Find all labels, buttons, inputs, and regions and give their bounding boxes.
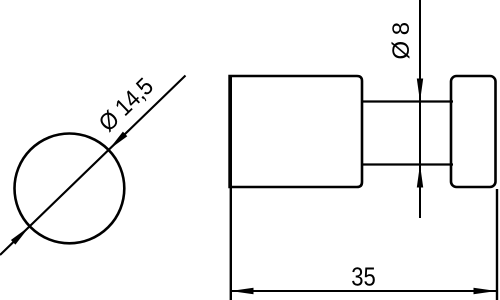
arrowhead at upper-right circle edge <box>109 132 128 150</box>
diagonal diameter dimension line <box>0 76 186 256</box>
right extension line (cap right edge extended) <box>496 189 498 300</box>
35 horizontal dimension line <box>231 290 497 292</box>
side view body (large cylinder) <box>230 76 362 187</box>
svg-text:Ø 14,5: Ø 14,5 <box>94 73 159 137</box>
side view cap (rear flange) <box>451 76 496 187</box>
arrowhead pointing left <box>231 288 254 294</box>
neck bottom line <box>361 163 453 165</box>
arrowhead pointing down at neck top <box>417 79 423 102</box>
Ø8 vertical dimension line <box>419 0 421 218</box>
arrowhead pointing right <box>474 288 497 294</box>
front view circle Ø14,5 <box>15 134 125 244</box>
left extension line (body left edge extended) <box>230 76 232 300</box>
arrowhead pointing up at neck bottom <box>417 165 423 188</box>
svg-text:Ø 8: Ø 8 <box>388 22 415 59</box>
neck top line <box>361 100 453 102</box>
arrowhead at lower-left circle edge <box>11 226 30 244</box>
svg-text:35: 35 <box>351 264 376 292</box>
